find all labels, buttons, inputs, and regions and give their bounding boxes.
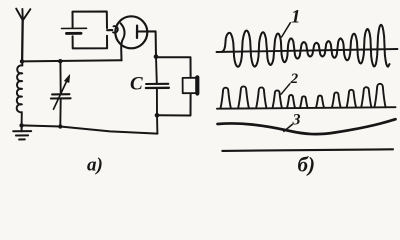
node: C / telephone bottom junction: [155, 113, 160, 118]
svg-text:C: C: [130, 74, 143, 95]
wire: anode lead: [138, 31, 156, 56]
bottom reference line: [222, 149, 393, 151]
inductor L (antenna coil): [17, 61, 23, 125]
svg-text:1: 1: [291, 7, 301, 28]
capacitor C top lead: [155, 57, 158, 83]
svg-text:а): а): [87, 155, 103, 176]
tube anode plate: [136, 26, 138, 38]
waveform 1: modulated RF carrier: [222, 25, 390, 67]
node: antenna / coil / top wire junction: [20, 59, 24, 63]
axis line of waveform 1: [217, 49, 398, 52]
waveform 2: rectified pulses: [221, 84, 386, 108]
capacitor C bottom lead: [156, 89, 159, 134]
label 3 pointer: [284, 125, 292, 132]
wire: telephone loop top: [156, 57, 191, 78]
svg-text:3: 3: [292, 111, 301, 128]
baseline of waveform 2: [217, 107, 396, 109]
label 1 pointer: [282, 23, 291, 37]
capacitor C plates: [146, 83, 168, 85]
node: anode / C / telephone top junction: [154, 54, 159, 59]
ink speck: [383, 39, 385, 41]
waveform 3: audio-frequency envelope: [218, 119, 396, 134]
wire: top horizontal bus (junction to tube cathode lead): [22, 60, 122, 61]
svg-text:2: 2: [290, 71, 299, 87]
tube cathode filament arc: [121, 23, 125, 60]
wire: filament battery loop (box): [73, 12, 108, 49]
vacuum tube diode envelope: [115, 16, 147, 48]
node: variable capacitor top junction: [58, 59, 62, 63]
wire: bottom return bus: [22, 125, 158, 133]
svg-text:б): б): [298, 153, 315, 177]
wire: telephone loop bottom: [157, 94, 190, 116]
variable capacitor (tuning): [51, 61, 71, 126]
battery B (filament battery cell): [62, 28, 87, 33]
telephone (headphone): [183, 77, 198, 93]
node: coil bottom / ground junction: [19, 123, 23, 127]
wire: battery box stub to tube filament: [107, 29, 112, 31]
node: variable capacitor bottom junction: [58, 124, 62, 128]
ground: [13, 125, 31, 139]
label 2 pointer: [281, 84, 290, 95]
antenna: [16, 9, 30, 62]
tube filament loop: [113, 26, 118, 33]
